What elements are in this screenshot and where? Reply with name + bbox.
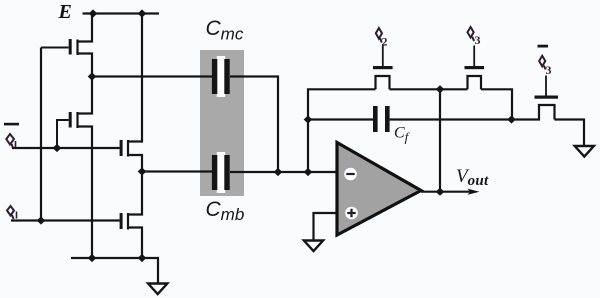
- switch S3bar channel bump: [512, 105, 555, 120]
- ground opamp plus: [304, 241, 323, 252]
- label phi3bar overline: [538, 45, 549, 48]
- wire M2 gate lead to phi1bar: [57, 120, 69, 148]
- label phi1 glyph: [7, 206, 17, 219]
- wire phi1bar line: [12, 147, 120, 149]
- ground right section: [575, 146, 594, 157]
- label phi2: [376, 28, 382, 43]
- node junction bottom M4 source: [138, 254, 147, 262]
- transistor M2 channel: [76, 112, 78, 128]
- op-amp U1: [337, 143, 421, 236]
- node junction on E rail left: [89, 9, 98, 17]
- wire phi1 line: [11, 219, 120, 221]
- label phi1bar glyph: [6, 134, 15, 149]
- wire Cmb left plate: [142, 170, 212, 172]
- wire Cf left: [308, 118, 373, 120]
- ground left section: [148, 284, 167, 295]
- wire S2 gate lead: [382, 46, 384, 67]
- transistor M1 channel: [76, 40, 78, 56]
- wire M3 source down: [128, 155, 142, 172]
- switch S3bar gate bar: [535, 96, 559, 99]
- svg-text:E: E: [58, 1, 72, 23]
- capacitor Cf: [373, 106, 390, 132]
- wire S3bar to ground: [555, 120, 585, 146]
- node junction M3 source Cmb: [138, 167, 147, 175]
- capacitor Cmb: [212, 152, 230, 193]
- switch S2 channel bump: [376, 76, 390, 89]
- svg-text:3: 3: [546, 63, 552, 77]
- transistor M4 channel: [127, 213, 129, 230]
- wire output vertical: [439, 89, 441, 191]
- label phi3bar glyph: [539, 56, 546, 70]
- switch S3 channel bump: [468, 76, 482, 89]
- node junction output: [436, 188, 445, 196]
- transistor M3 channel: [127, 140, 129, 157]
- node junction phi1bar M2 gate: [53, 144, 62, 152]
- node junction Cmc branch: [274, 168, 283, 176]
- label phi1bar overline: [4, 123, 19, 126]
- node junction bottom M2 source: [88, 254, 97, 262]
- transistor M1 gate bar: [69, 39, 72, 55]
- transistor M3 gate bar: [120, 140, 123, 156]
- node junction feedback branch: [304, 168, 313, 176]
- wire S3 to down bend: [481, 89, 512, 119]
- wire output from apex: [421, 191, 470, 193]
- output arrowhead: [468, 189, 480, 195]
- node junction Cf output S3bar: [507, 115, 516, 123]
- node junction on E rail right: [138, 9, 147, 17]
- wire M1 gate lead: [41, 47, 69, 49]
- transistor M2 gate bar: [69, 112, 72, 128]
- capacitor matrix shaded box: [200, 50, 244, 196]
- wire feedback vertical: [308, 89, 376, 172]
- node junction Cf tee: [304, 115, 313, 123]
- wire Cf right: [390, 118, 512, 120]
- node junction phi1 M1 gate: [37, 216, 46, 224]
- node junction M1-M2 midpoint: [88, 72, 97, 80]
- node junction S2 S3 output: [436, 85, 445, 93]
- wire M1 drain to E rail: [78, 14, 93, 42]
- label phi3 top: [468, 27, 475, 41]
- wire E supply rail: [83, 12, 160, 14]
- wire M4 source down: [128, 228, 142, 259]
- wire M4 drain up: [128, 172, 142, 215]
- wire Cmc left plate: [92, 75, 212, 77]
- capacitor Cmc: [212, 56, 230, 97]
- wire M2 drain up: [78, 77, 93, 114]
- transistor M4 gate bar: [120, 213, 123, 229]
- svg-text:2: 2: [382, 35, 388, 49]
- svg-text:3: 3: [475, 33, 481, 47]
- wire M1 source down: [78, 54, 93, 77]
- wire M1 gate vertical to phi1: [40, 48, 42, 221]
- wire Cmb right to opamp minus: [230, 171, 338, 173]
- wire Cmc right plate bend down: [230, 77, 278, 173]
- wire between S2 and S3: [390, 88, 468, 90]
- wire S3bar gate lead: [545, 76, 547, 96]
- wire S3 gate lead: [473, 46, 475, 67]
- wire M3 drain up to E rail: [128, 14, 142, 142]
- wire opamp plus to ground: [314, 213, 338, 240]
- wire bottom rail to ground: [71, 258, 158, 283]
- switch S2 gate bar: [373, 66, 393, 69]
- wire M2 source down: [78, 127, 93, 259]
- switch S3 gate bar: [465, 66, 485, 69]
